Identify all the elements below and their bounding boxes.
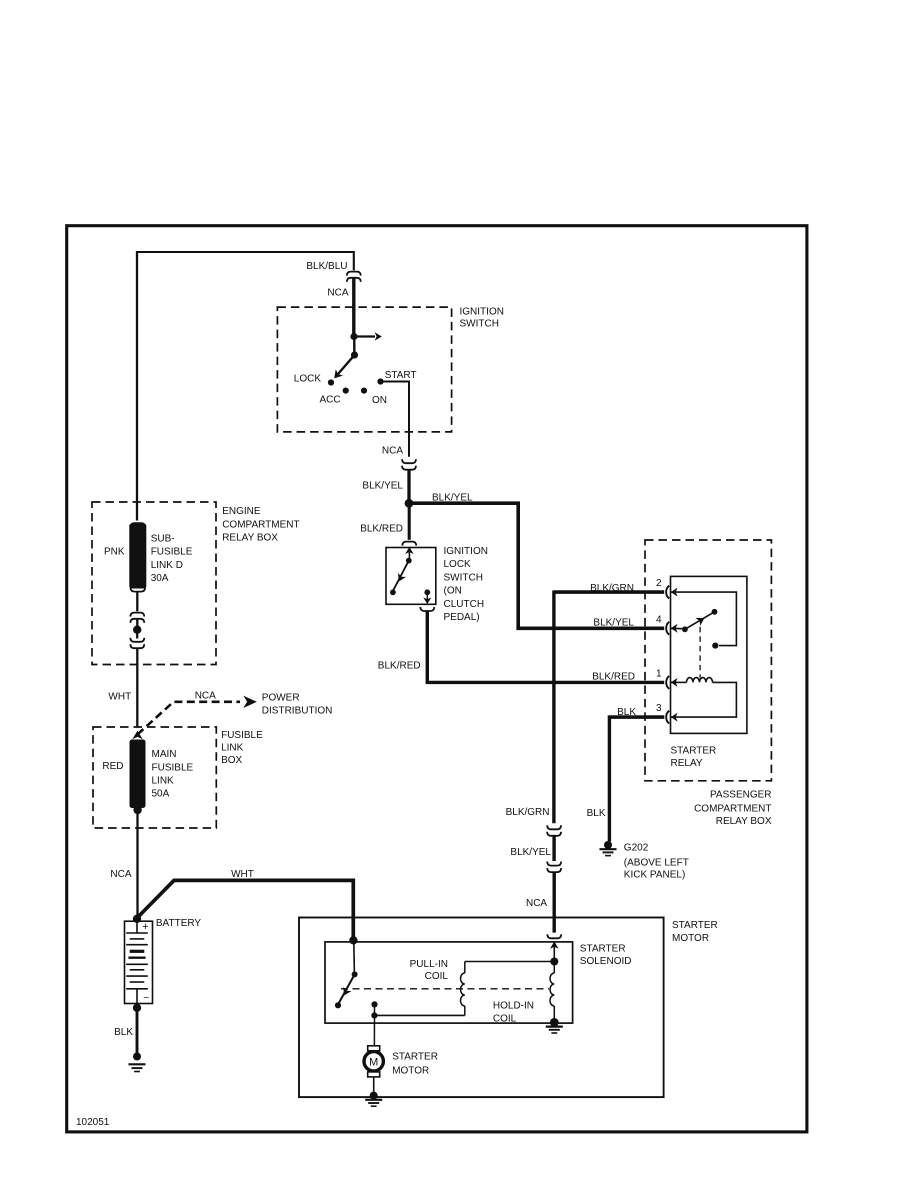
svg-text:FUSIBLE: FUSIBLE xyxy=(152,762,194,773)
svg-text:COIL: COIL xyxy=(493,1014,517,1025)
svg-text:COMPARTMENT: COMPARTMENT xyxy=(222,519,299,530)
svg-text:50A: 50A xyxy=(152,789,170,800)
svg-text:MOTOR: MOTOR xyxy=(672,933,709,944)
svg-text:FUSIBLE: FUSIBLE xyxy=(221,730,263,741)
svg-text:BLK/YEL: BLK/YEL xyxy=(593,617,634,628)
svg-text:SWITCH: SWITCH xyxy=(460,319,499,330)
svg-text:DISTRIBUTION: DISTRIBUTION xyxy=(262,706,333,717)
svg-text:CLUTCH: CLUTCH xyxy=(444,599,485,610)
svg-text:ON: ON xyxy=(372,395,387,406)
svg-text:−: − xyxy=(143,993,149,1004)
svg-text:NCA: NCA xyxy=(110,869,131,880)
svg-text:WHT: WHT xyxy=(231,869,254,880)
svg-text:STARTER: STARTER xyxy=(672,920,718,931)
svg-text:MOTOR: MOTOR xyxy=(392,1066,429,1077)
svg-text:2: 2 xyxy=(656,578,662,589)
svg-text:(ON: (ON xyxy=(444,586,462,597)
svg-text:SUB-: SUB- xyxy=(151,534,175,545)
svg-text:HOLD-IN: HOLD-IN xyxy=(493,1000,534,1011)
svg-text:102051: 102051 xyxy=(76,1117,110,1128)
svg-text:LOCK: LOCK xyxy=(444,559,472,570)
svg-text:POWER: POWER xyxy=(262,693,300,704)
svg-text:BLK/RED: BLK/RED xyxy=(592,672,635,683)
svg-text:STARTER: STARTER xyxy=(671,746,717,757)
svg-text:WHT: WHT xyxy=(108,692,131,703)
svg-text:BLK/YEL: BLK/YEL xyxy=(362,481,403,492)
svg-text:COMPARTMENT: COMPARTMENT xyxy=(694,803,771,814)
svg-text:BLK/YEL: BLK/YEL xyxy=(510,847,551,858)
svg-text:BATTERY: BATTERY xyxy=(156,918,202,929)
svg-text:NCA: NCA xyxy=(327,288,348,299)
svg-text:RELAY BOX: RELAY BOX xyxy=(716,816,772,827)
svg-text:M: M xyxy=(369,1057,378,1069)
svg-text:BLK/GRN: BLK/GRN xyxy=(506,807,550,818)
svg-text:LINK D: LINK D xyxy=(151,560,183,571)
svg-text:BLK: BLK xyxy=(114,1027,133,1038)
svg-text:BLK/RED: BLK/RED xyxy=(378,660,421,671)
svg-text:(ABOVE LEFT: (ABOVE LEFT xyxy=(624,857,689,868)
svg-text:LINK: LINK xyxy=(152,776,175,787)
svg-text:BLK/RED: BLK/RED xyxy=(360,524,403,535)
svg-text:BLK: BLK xyxy=(587,808,606,819)
svg-text:BLK/GRN: BLK/GRN xyxy=(590,583,634,594)
svg-text:G202: G202 xyxy=(624,843,649,854)
svg-text:PNK: PNK xyxy=(104,547,125,558)
svg-text:RELAY: RELAY xyxy=(671,758,703,769)
svg-text:NCA: NCA xyxy=(195,690,216,701)
svg-text:NCA: NCA xyxy=(526,898,547,909)
svg-text:SWITCH: SWITCH xyxy=(444,572,483,583)
svg-text:IGNITION: IGNITION xyxy=(460,307,504,318)
svg-text:+: + xyxy=(142,921,148,933)
svg-text:PEDAL): PEDAL) xyxy=(444,612,480,623)
svg-text:30A: 30A xyxy=(151,573,169,584)
svg-text:SOLENOID: SOLENOID xyxy=(580,956,632,967)
svg-text:COIL: COIL xyxy=(425,971,449,982)
svg-text:3: 3 xyxy=(656,703,662,714)
svg-text:FUSIBLE: FUSIBLE xyxy=(151,547,193,558)
svg-text:STARTER: STARTER xyxy=(392,1051,438,1062)
svg-text:MAIN: MAIN xyxy=(152,749,177,760)
svg-text:ACC: ACC xyxy=(320,395,341,406)
svg-text:4: 4 xyxy=(656,614,662,625)
svg-text:KICK PANEL): KICK PANEL) xyxy=(624,870,686,881)
svg-text:LINK: LINK xyxy=(221,743,244,754)
svg-text:LOCK: LOCK xyxy=(294,374,322,385)
svg-text:STARTER: STARTER xyxy=(580,943,626,954)
svg-text:PULL-IN: PULL-IN xyxy=(410,959,448,970)
svg-text:BOX: BOX xyxy=(221,755,242,766)
svg-text:IGNITION: IGNITION xyxy=(444,546,488,557)
svg-text:ENGINE: ENGINE xyxy=(222,506,261,517)
svg-text:PASSENGER: PASSENGER xyxy=(710,789,772,800)
svg-text:BLK/BLU: BLK/BLU xyxy=(306,261,347,272)
svg-text:START: START xyxy=(385,370,417,381)
svg-text:1: 1 xyxy=(656,668,662,679)
svg-text:RED: RED xyxy=(102,761,123,772)
svg-text:NCA: NCA xyxy=(382,445,403,456)
svg-text:RELAY BOX: RELAY BOX xyxy=(222,533,278,544)
